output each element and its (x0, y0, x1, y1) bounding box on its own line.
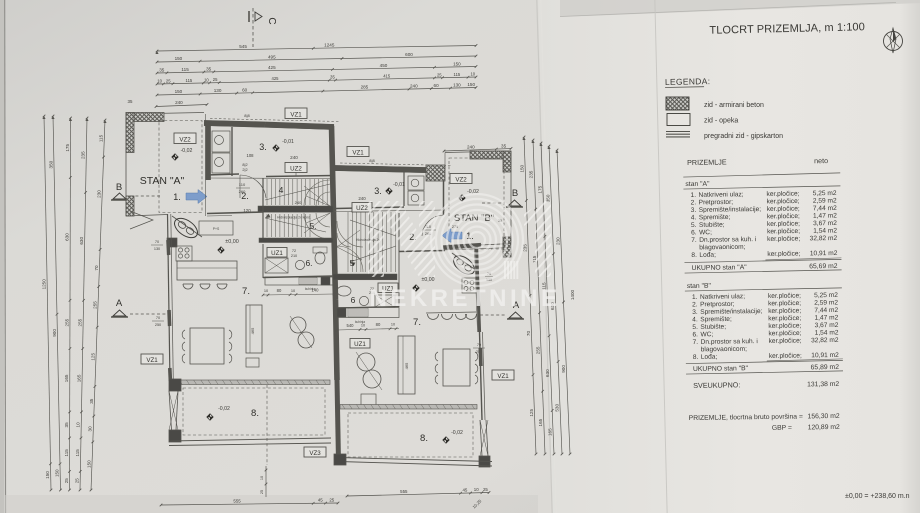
tiny dim 70/250 at B right wall (473, 343, 485, 354)
svg-text:±0,00 = +238,60 m.n: ±0,00 = +238,60 m.n (845, 493, 910, 500)
svg-text:UZ1: UZ1 (271, 250, 283, 257)
marker B left with triangle (111, 182, 160, 200)
svg-text:130: 130 (214, 88, 222, 93)
svg-text:ker.pločice;: ker.pločice; (769, 337, 802, 344)
svg-text:ker.pločice;: ker.pločice; (768, 322, 801, 329)
marker A left with triangle (111, 298, 172, 327)
loggia A railing top (170, 380, 330, 385)
svg-text:4.: 4. (691, 214, 697, 221)
roof dashed line above unit A wall (210, 119, 340, 122)
WC A washbasin (295, 260, 304, 269)
svg-text:25: 25 (64, 478, 69, 484)
svg-text:235: 235 (81, 151, 86, 159)
dim chain right v3 (537, 142, 555, 456)
svg-text:10: 10 (474, 487, 479, 492)
stairs unit A winder arcs (304, 180, 330, 239)
svg-text:1.: 1. (173, 192, 181, 202)
svg-text:3.: 3. (692, 309, 698, 316)
dim chain top row 150/495/600 (156, 52, 478, 64)
svg-text:Dn.prostor sa kuh. i: Dn.prostor sa kuh. i (701, 338, 759, 346)
svg-text:2|2: 2|2 (242, 168, 247, 172)
svg-text:PRIZEMLJE: PRIZEMLJE (687, 157, 727, 167)
unit A left exterior wall with windows (168, 214, 174, 382)
stairs unit B flight (348, 212, 399, 272)
svg-text:ker.pločice;: ker.pločice; (767, 213, 800, 220)
WC unit A walls (263, 244, 334, 278)
wall below porch B (443, 244, 511, 251)
svg-text:165: 165 (548, 428, 553, 436)
svg-text:±0,00: ±0,00 (225, 239, 238, 245)
svg-text:900: 900 (561, 365, 566, 373)
dim porch A width 240 (128, 99, 209, 108)
svg-text:ker.pločice;: ker.pločice; (767, 228, 800, 235)
svg-text:1,47 m2: 1,47 m2 (813, 212, 837, 219)
svg-text:35: 35 (128, 99, 133, 104)
svg-text:25: 25 (437, 72, 442, 77)
svg-text:6: 6 (351, 295, 356, 305)
svg-text:555: 555 (233, 499, 241, 504)
section marker C (249, 8, 277, 47)
svg-text:Spremište;: Spremište; (700, 316, 732, 323)
kitchen counter unit B (337, 308, 399, 325)
svg-text:140: 140 (312, 288, 320, 293)
dim 110/260 B door (422, 225, 436, 236)
svg-text:VZ1: VZ1 (497, 373, 509, 380)
svg-text:-0,02: -0,02 (451, 430, 463, 436)
watermark big digit 1 (524, 201, 551, 277)
sofa unit A (246, 305, 262, 353)
svg-text:7.: 7. (242, 286, 250, 297)
svg-text:VZ1: VZ1 (352, 149, 364, 156)
svg-text:Spremište/instalacije;: Spremište/instalacije; (699, 206, 762, 214)
svg-text:stan "A": stan "A" (685, 181, 710, 188)
label UZ1 living B (350, 339, 370, 349)
svg-text:8.: 8. (691, 252, 697, 259)
svg-text:60: 60 (434, 83, 440, 88)
svg-text:1.: 1. (692, 294, 698, 301)
svg-text:240: 240 (358, 196, 366, 201)
svg-text:230: 230 (97, 190, 102, 198)
svg-text:230: 230 (555, 237, 560, 245)
svg-text:450: 450 (380, 63, 388, 68)
svg-text:ker.pločice;: ker.pločice; (768, 330, 801, 337)
svg-text:blagovaonicom;: blagovaonicom; (699, 244, 745, 252)
loggia A bottom wall (169, 438, 331, 446)
dining table unit A (182, 328, 232, 364)
bottom shade left page (5, 495, 538, 513)
svg-text:165: 165 (77, 374, 82, 382)
dim chain top row 35/115/35/425/450/150 (156, 61, 478, 74)
svg-text:150: 150 (86, 460, 91, 468)
svg-text:6.: 6. (691, 229, 697, 236)
dim chain top row 545/1245 (155, 43, 477, 55)
svg-text:UKUPNO stan "B": UKUPNO stan "B" (693, 365, 749, 373)
svg-text:165: 165 (538, 418, 543, 426)
unit B right wall upper segment (475, 247, 480, 332)
stairs unit A lower flight (265, 214, 326, 237)
svg-text:32,82 m2: 32,82 m2 (810, 235, 838, 242)
svg-text:235: 235 (529, 170, 534, 178)
label VZ1 unit A top (285, 108, 307, 119)
label VZ1 left wall A (141, 354, 163, 364)
svg-text:465: 465 (250, 327, 255, 334)
svg-text:125: 125 (90, 353, 95, 361)
svg-text:5.: 5. (691, 222, 697, 229)
svg-text:Lođa;: Lođa; (699, 252, 716, 259)
kitchen A hob counter (176, 246, 192, 261)
dim chain right v5 900 (555, 149, 571, 456)
svg-text:Natkriveni ulaz;: Natkriveni ulaz; (698, 191, 743, 199)
svg-text:Hidroizolacija 2x kond.: Hidroizolacija 2x kond. (277, 216, 311, 220)
svg-text:1245: 1245 (324, 43, 335, 48)
label VZ1 unit B top (347, 147, 369, 157)
svg-text:115: 115 (181, 67, 189, 72)
label VZ2 porch B (450, 174, 472, 184)
centre fold crease (537, 0, 553, 513)
label VZ1 right wall B (492, 370, 514, 380)
svg-text:255: 255 (535, 346, 540, 354)
svg-text:7,44 m2: 7,44 m2 (813, 205, 837, 212)
svg-text:10: 10 (157, 78, 162, 83)
svg-text:1,47 m2: 1,47 m2 (814, 314, 838, 321)
chairs top row unit B (426, 312, 477, 320)
svg-text:VZ1: VZ1 (146, 357, 158, 364)
dim chain right v4 (546, 145, 564, 456)
svg-text:125: 125 (529, 409, 534, 417)
svg-text:ker.pločice;: ker.pločice; (768, 315, 801, 322)
svg-text:150: 150 (55, 469, 60, 477)
party wall A/B upper (332, 126, 338, 380)
dim porch B width 240/35 (443, 143, 513, 152)
svg-text:8.: 8. (693, 354, 699, 361)
svg-text:555: 555 (400, 489, 408, 494)
hall wall left of stairs A (207, 178, 263, 216)
loggia B right wall window (479, 420, 490, 467)
armchairs unit B (356, 352, 382, 390)
unit B right exterior wall lower (480, 332, 486, 420)
dim chain bottom unit A 555 (160, 498, 340, 507)
loggia A dashed inner (183, 388, 325, 435)
svg-text:540: 540 (347, 323, 355, 328)
washer room divider unit B (404, 171, 424, 206)
svg-text:VZ2: VZ2 (179, 136, 191, 143)
svg-text:-0,01: -0,01 (282, 139, 294, 145)
svg-text:425: 425 (268, 65, 276, 70)
svg-text:UZ2: UZ2 (290, 165, 302, 172)
svg-text:-0,02: -0,02 (218, 406, 230, 412)
svg-text:Pretprostor;: Pretprostor; (700, 301, 735, 308)
dims 10 80 10 140 kitchen A (262, 288, 336, 297)
compass rose (884, 28, 903, 53)
porch A outline (126, 113, 204, 217)
svg-text:35: 35 (501, 143, 507, 148)
svg-text:3.: 3. (691, 207, 697, 214)
svg-text:115: 115 (186, 78, 193, 83)
dim chain left v5 115/230/70/125/150 (86, 119, 106, 492)
svg-text:150: 150 (45, 471, 50, 479)
dims 540 10 80 10 kitchen B (336, 322, 399, 331)
dim chain top row 150/130/60/285/240/60/130/150 (156, 82, 478, 96)
svg-text:150: 150 (453, 61, 461, 66)
svg-text:UZ1: UZ1 (354, 341, 366, 348)
svg-text:10: 10 (391, 323, 395, 327)
side table unit B (361, 394, 376, 407)
legend symbol pregradni zid (666, 132, 783, 141)
label VZ2 porch A (174, 133, 196, 144)
svg-text:GBP =: GBP = (772, 425, 792, 432)
dim chain left v1 1250 (42, 115, 53, 492)
label UZ1 WC B (378, 283, 398, 293)
svg-text:3,67 m2: 3,67 m2 (813, 220, 837, 227)
svg-text:4.: 4. (692, 316, 698, 323)
label VZ3 below loggia A (304, 447, 326, 457)
svg-text:25: 25 (329, 498, 334, 503)
tiny 72/210 at WC A (291, 249, 297, 258)
svg-text:1250: 1250 (42, 279, 47, 290)
svg-text:65,69 m2: 65,69 m2 (809, 263, 838, 270)
svg-text:7.: 7. (693, 339, 699, 346)
svg-text:UZ2: UZ2 (356, 205, 368, 212)
svg-text:ker.pločice;: ker.pločice; (768, 307, 801, 314)
svg-text:8|2: 8|2 (242, 163, 247, 167)
room number 3. unit B and level (374, 182, 405, 196)
entry wall block unit B (426, 165, 445, 215)
svg-text:NEKRETNINE: NEKRETNINE (369, 285, 560, 312)
svg-text:zid - opeka: zid - opeka (704, 118, 738, 125)
svg-text:72: 72 (292, 249, 296, 253)
dim chain left v2 900/150 (48, 115, 61, 492)
svg-text:7,44 m2: 7,44 m2 (814, 307, 838, 314)
svg-text:115: 115 (64, 449, 69, 457)
tiny dim 79/130 B (485, 272, 493, 282)
dim 240 and label UZ2 unit A (285, 155, 307, 176)
svg-text:ker.pločice;: ker.pločice; (767, 250, 800, 257)
loggia B railing top (340, 405, 477, 410)
svg-text:240: 240 (467, 145, 475, 150)
loggia A corner pillars (169, 379, 181, 442)
svg-text:ker.pločice;: ker.pločice; (767, 235, 800, 242)
svg-text:A: A (116, 298, 123, 309)
porch A dashed inner line (159, 121, 202, 213)
porch B outline (445, 151, 511, 257)
svg-text:70: 70 (94, 265, 99, 271)
svg-text:3.: 3. (374, 186, 382, 196)
svg-text:250: 250 (155, 323, 161, 327)
svg-text:-0,02: -0,02 (181, 148, 193, 154)
svg-text:70: 70 (156, 316, 160, 320)
dim chain right v2 (529, 139, 547, 456)
svg-text:P+S: P+S (213, 227, 220, 231)
svg-text:255: 255 (78, 318, 83, 326)
svg-text:8.: 8. (420, 433, 428, 444)
WC A shower box (265, 258, 288, 273)
svg-text:465: 465 (404, 362, 409, 369)
svg-text:STAN "A": STAN "A" (140, 175, 185, 187)
svg-text:150: 150 (520, 164, 525, 172)
svg-text:120,89 m2: 120,89 m2 (808, 424, 840, 431)
dining table unit B (435, 349, 478, 386)
svg-text:70: 70 (526, 331, 531, 337)
svg-text:B: B (512, 188, 518, 199)
svg-text:108: 108 (247, 153, 255, 158)
wall unit B top exterior (334, 166, 445, 174)
svg-text:10,91 m2: 10,91 m2 (811, 352, 839, 359)
stairs unit A upper flight (263, 178, 330, 240)
WC B shower box (375, 295, 395, 307)
loggia B bottom wall (339, 458, 492, 467)
svg-text:VZ3: VZ3 (309, 450, 321, 457)
svg-text:45: 45 (318, 498, 323, 503)
porch B dashed inner (449, 158, 504, 249)
svg-text:Lođa;: Lođa; (701, 354, 718, 361)
hall wall B bottom (399, 251, 445, 252)
svg-text:5,25 m2: 5,25 m2 (814, 292, 838, 299)
svg-text:350: 350 (48, 160, 53, 168)
watermark rings (431, 194, 523, 286)
stairs unit B winder arcs (337, 221, 363, 272)
svg-text:1,54 m2: 1,54 m2 (813, 227, 837, 234)
svg-text:5,25 m2: 5,25 m2 (813, 190, 837, 197)
svg-text:7.: 7. (691, 237, 697, 244)
svg-text:blagovaonicom;: blagovaonicom; (701, 346, 747, 354)
svg-text:900: 900 (52, 329, 57, 337)
area table (683, 156, 844, 433)
wall stairs-WC unit B landing (333, 274, 397, 280)
svg-text:Spremište/instalacije;: Spremište/instalacije; (700, 308, 763, 316)
svg-text:25: 25 (260, 490, 264, 494)
porch A hatched corner walls (126, 113, 164, 217)
svg-text:35: 35 (64, 422, 69, 428)
svg-text:ker.pločice;: ker.pločice; (768, 300, 801, 307)
svg-text:630: 630 (79, 237, 84, 245)
svg-text:C: C (266, 17, 277, 24)
bar stools unit A (183, 284, 227, 289)
svg-text:LEGENDA:: LEGENDA: (665, 76, 711, 87)
svg-text:2,59 m2: 2,59 m2 (813, 197, 837, 204)
svg-text:5.: 5. (692, 324, 698, 331)
right page group (709, 21, 865, 37)
svg-text:Dn.prostor sa kuh. i: Dn.prostor sa kuh. i (699, 236, 757, 244)
svg-text:210: 210 (291, 254, 297, 258)
svg-text:35: 35 (330, 75, 335, 80)
wall stairs-WC unit A (259, 238, 333, 243)
svg-text:6.: 6. (692, 331, 698, 338)
svg-text:3,67 m2: 3,67 m2 (814, 322, 838, 329)
svg-text:630: 630 (545, 369, 550, 377)
door arc room2-room3 A (240, 175, 266, 198)
svg-text:6.: 6. (305, 258, 312, 268)
svg-text:Stubište;: Stubište; (700, 323, 726, 330)
tiny dim 275/35 porch B (452, 219, 502, 229)
loggia B dashed inner (348, 413, 473, 457)
stairs unit A landing wall (258, 206, 333, 212)
kitchen counter below WC A (265, 277, 333, 291)
svg-text:Spremište;: Spremište; (699, 214, 731, 221)
right page left crease (655, 0, 668, 513)
svg-text:495: 495 (268, 54, 276, 59)
svg-text:60: 60 (242, 87, 248, 92)
svg-text:425: 425 (272, 76, 280, 81)
svg-text:B: B (116, 182, 122, 193)
svg-text:150: 150 (467, 82, 475, 87)
porch B hatched corners (470, 151, 511, 257)
svg-text:165: 165 (64, 374, 69, 382)
TV bench unit A (246, 358, 259, 367)
watermark bars glyph (504, 261, 518, 279)
svg-text:ker.pločice;: ker.pločice; (767, 220, 800, 227)
svg-text:10: 10 (470, 72, 475, 77)
dim 70/130 window A (151, 240, 163, 251)
svg-text:WC;: WC; (700, 331, 713, 338)
svg-text:pregradni zid - gipskarton: pregradni zid - gipskarton (704, 133, 783, 140)
svg-text:1,54 m2: 1,54 m2 (815, 329, 839, 336)
svg-text:VZ1: VZ1 (290, 111, 302, 118)
svg-text:65,89 m2: 65,89 m2 (811, 364, 840, 371)
svg-text:8.: 8. (251, 408, 259, 419)
svg-text:±0,00: ±0,00 (422, 277, 435, 283)
svg-text:ker.pločice;: ker.pločice; (767, 205, 800, 212)
svg-text:25: 25 (483, 487, 488, 492)
svg-text:131,38 m2: 131,38 m2 (807, 381, 839, 388)
svg-text:25: 25 (213, 77, 218, 82)
svg-text:115: 115 (75, 449, 80, 457)
section line C through loggia A dashed (266, 385, 268, 465)
svg-text:SVEUKUPNO:: SVEUKUPNO: (693, 380, 740, 390)
svg-text:240: 240 (290, 155, 298, 160)
svg-text:25: 25 (166, 78, 171, 83)
svg-text:ker.pločice;: ker.pločice; (767, 198, 800, 205)
svg-text:175: 175 (65, 144, 70, 152)
sofa unit B (398, 336, 415, 394)
svg-text:545: 545 (239, 44, 247, 49)
svg-text:2,59 m2: 2,59 m2 (814, 299, 838, 306)
svg-text:WC;: WC; (699, 229, 712, 236)
svg-text:175: 175 (537, 185, 542, 193)
svg-text:2.: 2. (691, 199, 697, 206)
marker A right with triangle (480, 300, 524, 319)
svg-text:80: 80 (277, 288, 282, 293)
svg-text:1400: 1400 (570, 289, 575, 300)
dim chain right 1400 label (570, 289, 575, 300)
roof dashed above unit B wall (340, 163, 452, 166)
kitchen A corner sink unit (171, 214, 202, 241)
svg-text:30: 30 (88, 426, 93, 432)
svg-text:115: 115 (99, 134, 104, 142)
tiny 72/210 WC B (369, 287, 375, 295)
left paper edge (0, 0, 5, 513)
kitchen B hob counter (462, 278, 477, 293)
wall room3 B bottom (336, 207, 445, 212)
watermark big letter N (368, 201, 435, 277)
svg-text:Stubište;: Stubište; (699, 222, 725, 229)
svg-text:130: 130 (154, 247, 160, 251)
svg-text:70: 70 (155, 240, 159, 244)
svg-text:-0,01: -0,01 (393, 182, 405, 188)
svg-text:3.: 3. (259, 142, 267, 152)
svg-text:530: 530 (554, 404, 559, 412)
svg-text:VZ2: VZ2 (455, 176, 467, 183)
legend symbol opeka (667, 114, 738, 126)
dim chain left v4 235/630/165/115 (75, 117, 89, 492)
svg-text:45: 45 (462, 488, 467, 493)
svg-text:630: 630 (65, 233, 70, 241)
legend symbol armirani beton (666, 97, 764, 110)
svg-text:35: 35 (159, 67, 165, 72)
svg-text:neto: neto (814, 156, 828, 165)
WC unit B walls (336, 252, 399, 308)
room number 8. unit B and level (420, 430, 463, 444)
svg-text:ker.pločice;: ker.pločice; (768, 292, 801, 299)
